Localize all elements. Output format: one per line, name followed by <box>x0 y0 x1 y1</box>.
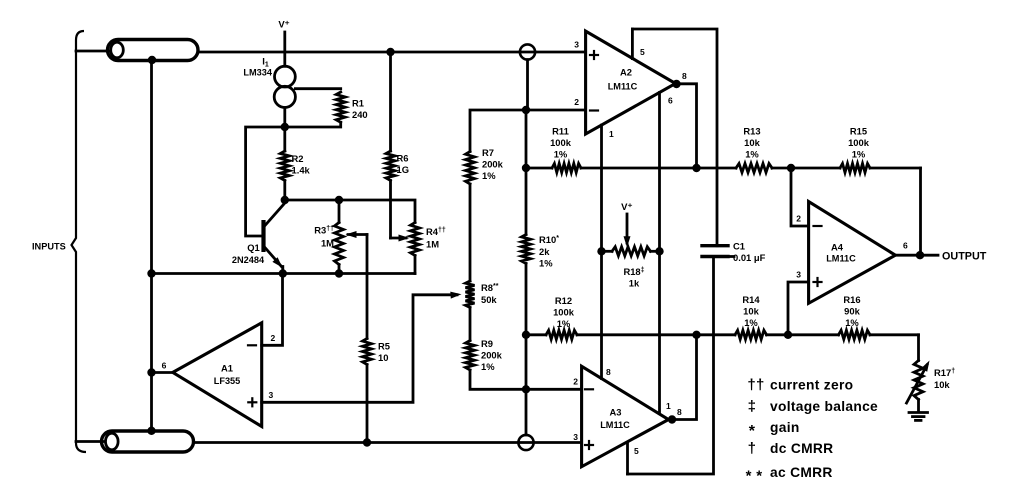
svg-text:1%: 1% <box>481 361 495 372</box>
svg-text:3: 3 <box>574 40 579 50</box>
svg-text:dc CMRR: dc CMRR <box>770 441 833 456</box>
A2 pin 8 output wire <box>672 71 696 168</box>
svg-text:R2: R2 <box>292 153 304 164</box>
svg-text:6: 6 <box>162 361 167 371</box>
resistor R15 100k <box>840 126 870 173</box>
resistor R6 1G <box>386 52 409 238</box>
svg-text:8: 8 <box>682 71 687 81</box>
junction shield/emitter row <box>147 269 155 277</box>
svg-text:3: 3 <box>573 432 578 442</box>
junction shield/bottom coax <box>147 427 155 435</box>
legend: adjustment key <box>746 377 878 485</box>
svg-text:3: 3 <box>796 270 801 280</box>
svg-text:1M: 1M <box>321 238 334 249</box>
wire: emitter row (Q1/A1 pin2/R3/R4) <box>152 272 416 275</box>
svg-text:2: 2 <box>271 333 276 343</box>
svg-text:R9: R9 <box>481 338 493 349</box>
wire: bootstrap I1 node to Q1 base <box>246 127 285 236</box>
svg-text:1: 1 <box>609 129 614 139</box>
wire: R12/R14/R16 feedback row <box>526 333 919 336</box>
svg-text:2k: 2k <box>539 246 550 257</box>
junction R3 top <box>335 196 343 204</box>
svg-text:‡: ‡ <box>748 398 757 415</box>
junction guard/R11 row <box>522 164 530 172</box>
svg-text:5: 5 <box>640 47 645 57</box>
junction R3 bottom <box>335 269 343 277</box>
resistor R14 10k <box>735 294 767 339</box>
svg-text:1%: 1% <box>845 317 859 328</box>
A3 pin labels and +/- <box>573 377 593 450</box>
op-amp A2 LM11C <box>586 31 676 134</box>
svg-text:R1: R1 <box>352 98 364 109</box>
svg-text:1: 1 <box>666 401 671 411</box>
resistor R13 10k <box>736 126 772 173</box>
A1 pin 2 wire <box>248 274 283 346</box>
resistor R5 10 <box>363 235 390 443</box>
op-amp A1 LF355 <box>173 323 262 427</box>
junction R18 left <box>597 247 605 255</box>
svg-text:Q1: Q1 <box>247 242 260 253</box>
guard circle (bottom) <box>518 435 533 450</box>
svg-text:3: 3 <box>269 390 274 400</box>
svg-text:0.01 μF: 0.01 μF <box>733 252 766 263</box>
svg-text:1%: 1% <box>852 149 866 160</box>
junction R5/bottom rail <box>363 438 371 446</box>
svg-text:240: 240 <box>352 109 368 120</box>
svg-text:1%: 1% <box>557 318 571 329</box>
svg-text:LM11C: LM11C <box>826 254 856 264</box>
transistor Q1 2N2484 <box>232 204 284 274</box>
svg-text:gain: gain <box>770 420 800 435</box>
guard circle (top) <box>520 44 535 59</box>
svg-text:A1: A1 <box>221 363 233 374</box>
wire: left shield column <box>150 60 153 431</box>
svg-text:R11: R11 <box>552 126 569 137</box>
svg-text:100k: 100k <box>550 137 572 148</box>
junction I1/R1/R2/bootstrap <box>281 123 289 131</box>
svg-text:5: 5 <box>634 446 639 456</box>
A4 pin 6 output / node OUTPUT <box>895 241 986 263</box>
potentiometer R3 1M (current zero) <box>314 200 367 274</box>
junction shield/A1 output <box>147 368 155 376</box>
svg-text:100k: 100k <box>848 137 870 148</box>
A3 pin 8 tap <box>602 251 612 378</box>
junction R13/A4 pin2 <box>787 164 795 172</box>
V+ supply (top) <box>278 20 289 67</box>
svg-text:1%: 1% <box>745 149 759 160</box>
ground <box>909 400 928 421</box>
svg-text:2: 2 <box>574 97 579 107</box>
svg-text:200k: 200k <box>481 350 503 361</box>
svg-text:LM334: LM334 <box>243 68 272 78</box>
junction emitter/A1 pin2 <box>279 269 287 277</box>
junction A2 output / R11-R13 row <box>692 164 700 172</box>
coax input (top shielded cable) <box>76 40 198 61</box>
A4 pin 3 wire <box>788 270 822 335</box>
A1 pin 3 wire to R8 wiper <box>248 292 461 407</box>
potentiometer R18 1k (voltage balance) <box>602 247 660 289</box>
junction A3 output / R12-R14 row <box>692 331 700 339</box>
svg-text:LM11C: LM11C <box>600 420 630 430</box>
svg-text:OUTPUT: OUTPUT <box>942 250 987 262</box>
svg-text:1%: 1% <box>744 317 758 328</box>
svg-text:A4: A4 <box>831 242 844 253</box>
svg-text:††: †† <box>747 377 764 394</box>
coax input (bottom shielded cable) <box>76 431 194 452</box>
A3 pin 8 output wire <box>668 335 697 424</box>
junction on top rail at R6 <box>386 48 394 56</box>
resistor R1 240 <box>285 89 368 127</box>
junction R18 right <box>655 247 663 255</box>
resistor R11 100k <box>550 126 581 173</box>
svg-text:200k: 200k <box>482 159 504 170</box>
capacitor C1 0.01 uF <box>702 241 766 264</box>
svg-text:R10*: R10* <box>539 234 559 245</box>
svg-text:C1: C1 <box>733 241 745 252</box>
resistor R10 2k (gain) <box>522 234 560 269</box>
op-amp A4 LM11C <box>809 202 896 304</box>
svg-text:current zero: current zero <box>770 378 853 393</box>
svg-text:R15: R15 <box>850 126 867 137</box>
svg-text:R12: R12 <box>555 295 572 306</box>
junction top coax tap <box>148 56 156 64</box>
potentiometer R8 50k (ac CMRR) <box>466 281 499 341</box>
wire: A2 pin 2 row <box>526 109 586 112</box>
svg-text:V⁺: V⁺ <box>621 202 632 213</box>
svg-text:R14: R14 <box>742 294 760 305</box>
svg-text:10k: 10k <box>743 306 759 317</box>
svg-text:LF355: LF355 <box>214 376 241 386</box>
junction guard/A2 pin2 row <box>522 106 530 114</box>
A1 pin 6 output wire <box>152 361 173 373</box>
svg-text:10k: 10k <box>744 137 760 148</box>
wire: top input rail to A2 pin 3 <box>198 51 586 54</box>
svg-text:90k: 90k <box>844 306 860 317</box>
svg-text:R13: R13 <box>743 126 760 137</box>
svg-text:R6: R6 <box>397 153 409 164</box>
svg-text:1%: 1% <box>482 170 496 181</box>
svg-text:1.4k: 1.4k <box>292 165 311 176</box>
svg-text:1k: 1k <box>629 278 640 289</box>
A2 pin 5 tap and comp loop <box>632 29 717 246</box>
op-amp A3 LM11C <box>582 366 669 466</box>
junction R2/Q1 collector <box>281 196 289 204</box>
svg-text:LM11C: LM11C <box>608 82 638 92</box>
wire: R16 to R17 <box>917 335 920 361</box>
svg-text:10k: 10k <box>934 379 950 390</box>
A4 pin 2 wire <box>791 168 822 226</box>
potentiometer R17 10k (dc CMRR) <box>907 361 956 404</box>
svg-text:1M: 1M <box>426 239 439 250</box>
A2 pin 6 / A3 pin 1 column <box>660 93 674 414</box>
potentiometer R4 1M (current zero) <box>391 223 446 274</box>
svg-text:1%: 1% <box>554 149 568 160</box>
A2 pin labels and +/- <box>574 40 598 111</box>
current source I1 LM334 <box>243 57 295 128</box>
svg-text:* *: * * <box>746 468 763 485</box>
node INPUTS (input brace) <box>32 31 86 452</box>
junction R14/A4 pin3 <box>784 331 792 339</box>
A2 pin 1 tap <box>602 125 615 251</box>
svg-text:V⁺: V⁺ <box>278 20 289 31</box>
svg-text:6: 6 <box>903 241 908 251</box>
svg-text:1G: 1G <box>397 164 410 175</box>
wire: Q1 collector row to R3/R4 <box>285 200 415 223</box>
svg-text:6: 6 <box>668 96 673 106</box>
svg-text:ac CMRR: ac CMRR <box>770 465 833 480</box>
svg-text:1%: 1% <box>539 258 553 269</box>
junction guard/R12 row <box>522 331 530 339</box>
resistor R9 200k <box>466 338 582 389</box>
svg-text:A2: A2 <box>620 67 632 78</box>
resistor R16 90k <box>839 294 871 339</box>
svg-text:2: 2 <box>796 214 801 224</box>
wire: R11/R13/R15 feedback row <box>526 167 921 170</box>
wire: bottom rail to A3 pin 3 <box>194 441 582 444</box>
svg-text:100k: 100k <box>553 307 575 318</box>
svg-text:R16: R16 <box>843 294 860 305</box>
resistor R12 100k <box>546 295 577 339</box>
svg-text:†: † <box>748 440 757 457</box>
svg-text:8: 8 <box>606 367 611 377</box>
svg-text:R5: R5 <box>378 341 390 352</box>
resistor R7 200k <box>466 110 527 281</box>
V+ supply (R18 wiper) <box>621 202 632 247</box>
svg-text:50k: 50k <box>481 294 497 305</box>
resistor R2 1.4k <box>280 127 310 200</box>
svg-text:INPUTS: INPUTS <box>32 242 66 252</box>
svg-text:R7: R7 <box>482 147 494 158</box>
svg-text:8: 8 <box>677 407 682 417</box>
junction R9 row / guard column <box>522 385 530 393</box>
svg-text:10: 10 <box>378 352 388 363</box>
svg-text:2: 2 <box>573 377 578 387</box>
svg-text:2N2484: 2N2484 <box>232 255 265 265</box>
svg-text:*: * <box>749 423 756 440</box>
wire: guard column with R10 <box>526 60 528 435</box>
svg-text:A3: A3 <box>610 407 622 418</box>
A3 pin 5 tap and comp loop <box>628 257 714 475</box>
svg-text:voltage balance: voltage balance <box>770 399 878 414</box>
wire: R15 to A4 output <box>919 168 922 255</box>
